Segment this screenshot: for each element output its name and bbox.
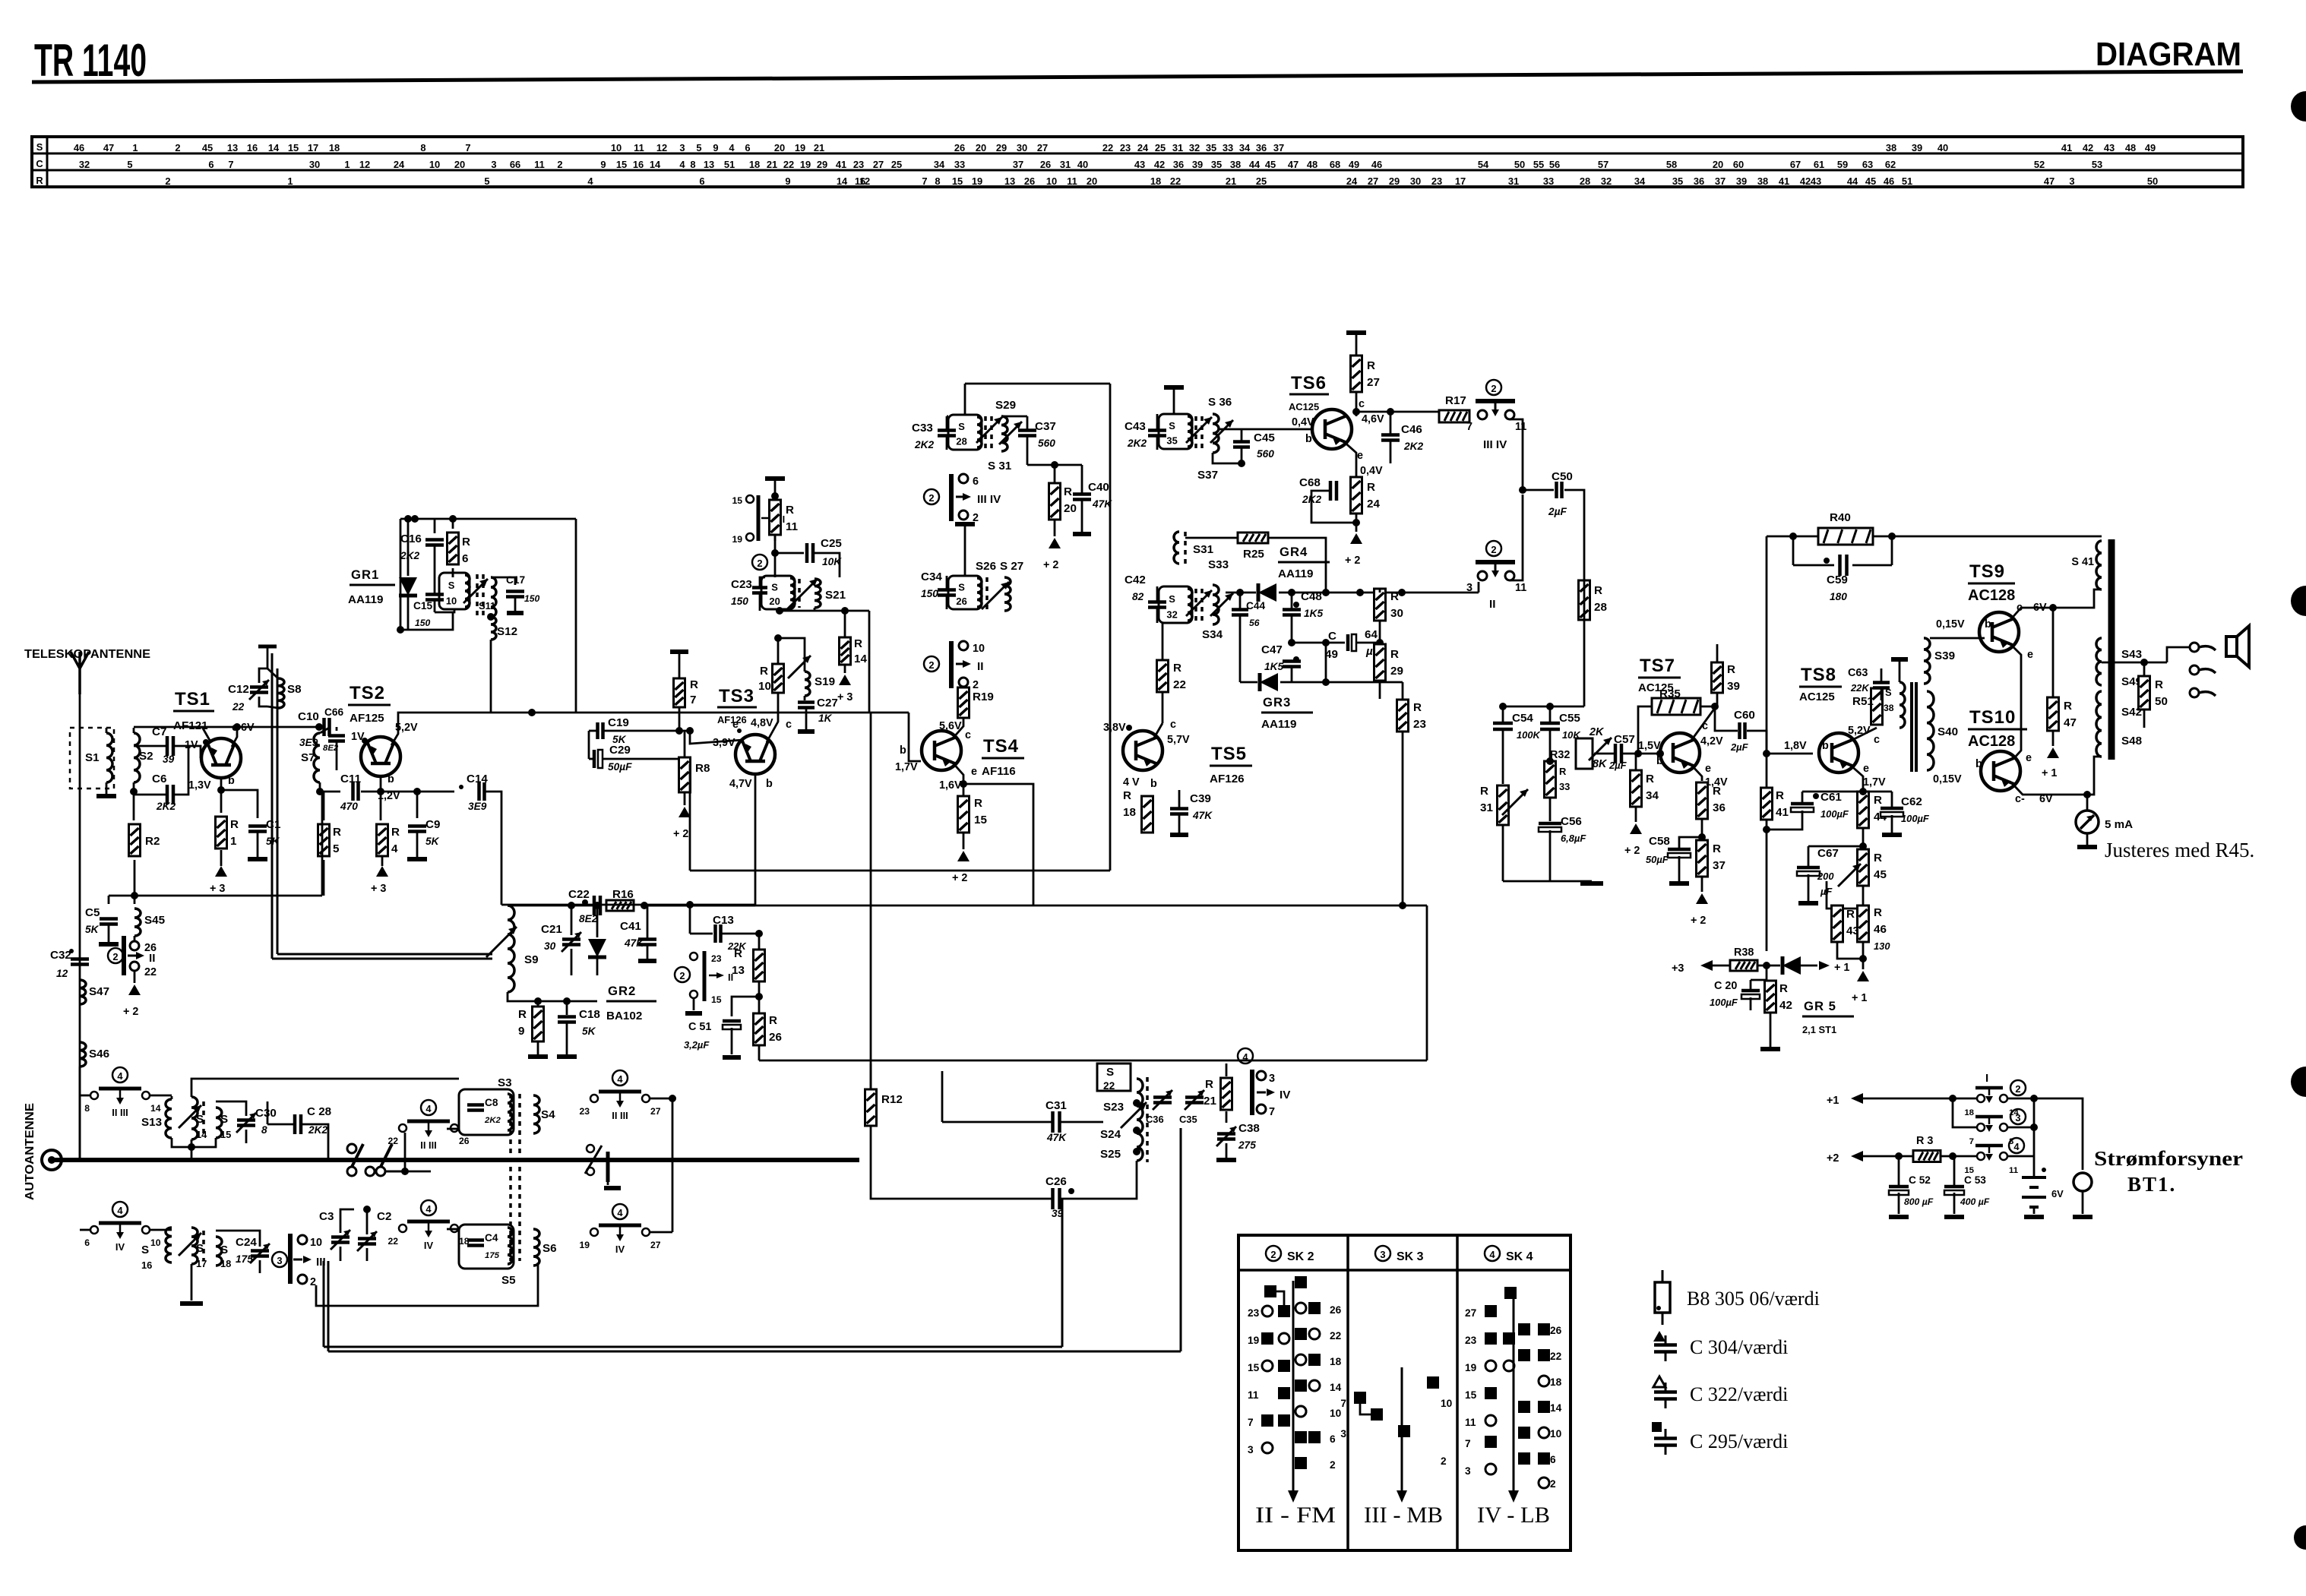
supply +2 below R24 [1350, 533, 1362, 544]
svg-text:43: 43 [1811, 175, 1821, 187]
svg-text:S 27: S 27 [1000, 560, 1023, 573]
svg-text:35: 35 [1211, 159, 1222, 170]
svg-text:AA119: AA119 [348, 593, 383, 606]
svg-text:2K2: 2K2 [400, 550, 419, 561]
svg-text:S6: S6 [542, 1242, 557, 1255]
resistor R28 [1579, 580, 1590, 620]
resistor R51 [1871, 688, 1883, 725]
svg-text:2: 2 [757, 558, 762, 569]
svg-text:22: 22 [1550, 1351, 1562, 1362]
svg-text:10: 10 [973, 643, 985, 655]
svg-text:22: 22 [232, 701, 245, 713]
svg-text:R: R [391, 826, 400, 839]
svg-text:7: 7 [1340, 1398, 1346, 1409]
svg-text:C 51: C 51 [688, 1021, 711, 1033]
svg-text:R: R [1727, 663, 1735, 676]
wire left bus down from R40 [1766, 536, 1768, 754]
SK2 arrow [1292, 1281, 1295, 1490]
transformer S17 S18 [191, 1228, 198, 1264]
potentiometer R45 [1858, 849, 1869, 886]
svg-text:e: e [2027, 649, 2033, 661]
svg-text:S: S [1169, 593, 1175, 605]
supply +1 below R46 [1857, 971, 1869, 981]
wire TS1 base-emitter bias [220, 779, 223, 813]
svg-text:42: 42 [1800, 175, 1811, 187]
wire TS3 emitter left [690, 731, 743, 744]
svg-text:C22: C22 [568, 888, 590, 901]
svg-text:S46: S46 [89, 1048, 109, 1060]
svg-text:C36: C36 [1146, 1114, 1164, 1125]
svg-text:R: R [854, 637, 862, 650]
svg-text:c: c [1170, 719, 1176, 731]
svg-text:AUTOANTENNE: AUTOANTENNE [24, 1103, 36, 1200]
svg-text:100K: 100K [1517, 729, 1542, 741]
svg-text:C38: C38 [1238, 1122, 1260, 1135]
svg-text:49: 49 [1349, 159, 1359, 170]
svg-text:b: b [387, 773, 394, 785]
svg-text:100µF: 100µF [1901, 813, 1930, 824]
wire TS4 emitter down [952, 762, 963, 796]
svg-text:2: 2 [679, 970, 685, 981]
svg-text:+ 1: + 1 [1852, 992, 1867, 1004]
svg-text:6: 6 [208, 159, 214, 170]
svg-text:C21: C21 [541, 923, 562, 936]
svg-text:S21: S21 [825, 589, 846, 602]
svg-text:b: b [766, 778, 773, 790]
switch 2: 7 III IV 11 [1486, 380, 1501, 395]
svg-text:22: 22 [1173, 678, 1186, 691]
wire TS4 base left [909, 713, 921, 761]
AVC wire left [109, 895, 322, 897]
svg-text:2K2: 2K2 [484, 1116, 501, 1125]
svg-text:30: 30 [1410, 175, 1421, 187]
svg-text:56: 56 [1549, 159, 1560, 170]
svg-text:AC128: AC128 [1968, 587, 2015, 604]
svg-text:R2: R2 [145, 835, 160, 848]
svg-text:34: 34 [934, 159, 945, 170]
svg-text:20: 20 [769, 596, 780, 607]
svg-text:4: 4 [425, 1103, 432, 1114]
svg-text:36: 36 [1713, 801, 1726, 814]
svg-text:C62: C62 [1901, 795, 1922, 808]
svg-text:+2: +2 [1827, 1152, 1839, 1165]
svg-text:R: R [1390, 590, 1399, 603]
svg-text:6: 6 [462, 552, 468, 565]
svg-text:45: 45 [1265, 159, 1276, 170]
wire GR1 top rail [400, 518, 576, 520]
svg-text:26: 26 [459, 1136, 470, 1146]
wire TS9 emitter [2010, 643, 2021, 759]
supply feed +1 arrow [1851, 1093, 1863, 1104]
wire vertical link switches [672, 1098, 674, 1232]
antenna bus thick [52, 1158, 859, 1162]
svg-text:R8: R8 [695, 762, 710, 775]
circled 2 marker [752, 555, 767, 570]
wire TS3 base down [754, 775, 757, 905]
svg-text:34: 34 [1646, 789, 1659, 802]
svg-text:TS10: TS10 [1969, 707, 2016, 728]
svg-text:2K2: 2K2 [156, 801, 176, 812]
svg-text:1K: 1K [818, 713, 833, 724]
svg-text:C 52: C 52 [1909, 1174, 1931, 1186]
coil S2 [134, 733, 140, 782]
svg-text:R17: R17 [1445, 394, 1466, 407]
svg-text:10: 10 [758, 680, 771, 693]
svg-text:C47: C47 [1261, 643, 1283, 656]
svg-text:C35: C35 [1179, 1114, 1197, 1125]
svg-text:21: 21 [1204, 1095, 1216, 1108]
svg-text:45: 45 [1865, 175, 1876, 187]
diode GR2 [588, 956, 606, 959]
svg-text:57: 57 [1598, 159, 1609, 170]
svg-text:R32: R32 [1550, 749, 1570, 761]
svg-text:R38: R38 [1734, 947, 1754, 959]
svg-text:26: 26 [1024, 175, 1035, 187]
wire TS1 emitter [202, 727, 211, 743]
svg-text:C66: C66 [324, 706, 343, 718]
svg-text:AF116: AF116 [982, 765, 1016, 778]
resistor R19 [958, 687, 970, 718]
IF transformer S10 [439, 573, 470, 609]
svg-text:BA102: BA102 [606, 1010, 642, 1022]
svg-text:3: 3 [1269, 1073, 1275, 1085]
svg-text:C24: C24 [236, 1236, 257, 1249]
svg-text:S1: S1 [85, 751, 100, 764]
svg-text:+ 2: + 2 [952, 872, 967, 884]
svg-text:36: 36 [1694, 175, 1704, 187]
svg-text:C16: C16 [400, 533, 422, 545]
svg-text:38: 38 [1757, 175, 1768, 187]
IF box S32 [1159, 586, 1192, 623]
svg-text:16: 16 [141, 1259, 152, 1271]
supply +3 below R4 [381, 856, 384, 866]
wire TS1 base [188, 746, 201, 758]
svg-text:1,3V: 1,3V [188, 779, 211, 792]
oscillator coil S20 box [761, 576, 795, 609]
svg-text:41: 41 [1776, 806, 1789, 819]
svg-text:82: 82 [1132, 591, 1144, 602]
ground AM block [191, 1264, 193, 1301]
svg-text:20: 20 [1087, 175, 1097, 187]
svg-text:S 31: S 31 [988, 460, 1012, 472]
svg-text:+ 2: + 2 [1345, 555, 1360, 567]
coil S6 [533, 1229, 539, 1266]
svg-text:33: 33 [1543, 175, 1554, 187]
band switch 4: 19 IV 27 [612, 1204, 628, 1219]
svg-text:9: 9 [600, 159, 606, 170]
svg-text:2µF: 2µF [1730, 741, 1749, 753]
wire S36 to TS6 base [1213, 453, 1242, 463]
svg-text:C45: C45 [1254, 431, 1275, 444]
svg-text:41: 41 [1779, 175, 1789, 187]
SK3 arrow [1401, 1367, 1403, 1490]
coil S47 [80, 980, 86, 1004]
resistor R5 [323, 792, 325, 820]
junction S11-S12 [487, 613, 495, 621]
svg-text:S: S [958, 581, 965, 593]
svg-text:26: 26 [954, 142, 965, 153]
svg-text:28: 28 [956, 436, 966, 447]
svg-text:19: 19 [1465, 1362, 1477, 1373]
svg-text:C34: C34 [921, 570, 942, 583]
svg-text:R: R [1713, 842, 1721, 855]
band switch 4: 22 IV 18 [421, 1200, 436, 1215]
svg-text:15: 15 [1465, 1389, 1477, 1401]
svg-text:21: 21 [1226, 175, 1236, 187]
svg-text:52: 52 [2034, 159, 2045, 170]
junction R44 bottom [1862, 828, 1865, 846]
capacitor C14 3E9 [417, 791, 454, 793]
svg-text:13: 13 [704, 159, 714, 170]
telescopic antenna symbol [71, 652, 89, 694]
svg-text:14: 14 [837, 175, 848, 187]
wire TS2 collector up [391, 713, 532, 745]
resistor R25 boxed [1238, 533, 1268, 543]
svg-text:C1: C1 [266, 818, 281, 831]
svg-text:29: 29 [1389, 175, 1400, 187]
svg-text:2: 2 [928, 659, 934, 671]
svg-text:1,8V: 1,8V [1784, 740, 1807, 752]
capacitor C51 3.2uF [732, 997, 759, 1016]
svg-text:C 20: C 20 [1714, 980, 1737, 992]
svg-text:40: 40 [1077, 159, 1088, 170]
svg-text:39: 39 [1192, 159, 1203, 170]
svg-text:3: 3 [277, 1255, 282, 1266]
svg-text:56: 56 [1249, 618, 1260, 628]
svg-text:R: R [1123, 789, 1131, 802]
svg-text:C15: C15 [413, 600, 432, 612]
svg-text:e: e [971, 766, 977, 778]
svg-text:C6: C6 [152, 773, 166, 785]
svg-text:37: 37 [1013, 159, 1023, 170]
svg-text:100µF: 100µF [1820, 808, 1849, 820]
svg-text:C56: C56 [1561, 815, 1582, 828]
svg-text:R: R [1390, 648, 1399, 661]
svg-text:b: b [1975, 758, 1982, 770]
gang bus double line [277, 953, 492, 956]
svg-text:2,1 ST1: 2,1 ST1 [1802, 1024, 1836, 1035]
svg-text:5,2V: 5,2V [1848, 725, 1871, 737]
svg-text:31: 31 [1508, 175, 1519, 187]
transformer S14 S15 [191, 1097, 198, 1139]
svg-text:R: R [1594, 584, 1602, 597]
svg-text:IV - LB: IV - LB [1477, 1503, 1550, 1528]
svg-text:2K2: 2K2 [914, 439, 934, 450]
svg-text:47: 47 [2044, 175, 2055, 187]
svg-text:26: 26 [1330, 1304, 1342, 1316]
svg-text:19: 19 [732, 534, 742, 545]
title rule [32, 71, 2243, 82]
svg-text:11: 11 [634, 142, 644, 153]
svg-text:47: 47 [1288, 159, 1299, 170]
svg-text:C19: C19 [608, 716, 629, 729]
svg-text:51: 51 [1902, 175, 1912, 187]
band switch 4: 8 II III 14 [112, 1067, 128, 1082]
svg-text:12: 12 [359, 159, 370, 170]
svg-text:10: 10 [446, 595, 457, 606]
svg-text:35: 35 [1206, 142, 1216, 153]
variable capacitor C35 [1185, 1098, 1204, 1103]
svg-text:8K: 8K [1593, 758, 1608, 770]
svg-text:C59: C59 [1827, 574, 1848, 586]
svg-text:43: 43 [1134, 159, 1145, 170]
svg-text:35: 35 [1672, 175, 1683, 187]
gang drive double line [323, 1261, 325, 1347]
svg-text:S 36: S 36 [1208, 396, 1232, 409]
ground above R11 [765, 476, 785, 481]
svg-text:S: S [220, 1113, 228, 1126]
svg-text:C33: C33 [912, 422, 933, 435]
switch table frame [1238, 1235, 1571, 1550]
svg-text:25: 25 [891, 159, 902, 170]
svg-text:10: 10 [1441, 1398, 1453, 1409]
capacitor C55 10K [1540, 723, 1560, 729]
svg-text:22: 22 [783, 159, 794, 170]
svg-text:e: e [1705, 763, 1711, 775]
bus vertical x1461 [1109, 384, 1112, 871]
core S26-S27 [985, 577, 989, 609]
svg-text:11: 11 [1515, 582, 1526, 594]
svg-text:3: 3 [2069, 175, 2074, 187]
svg-text:800 µF: 800 µF [1904, 1196, 1934, 1207]
svg-text:5: 5 [333, 842, 340, 855]
svg-text:18: 18 [1550, 1376, 1562, 1388]
potentiometer R31 [1498, 785, 1509, 825]
svg-text:TR 1140: TR 1140 [34, 35, 147, 86]
svg-text:2µF: 2µF [1609, 760, 1627, 771]
svg-text:19: 19 [1248, 1335, 1260, 1346]
svg-text:S: S [958, 421, 965, 432]
wire TS10 collector [2011, 757, 2102, 795]
svg-text:C31: C31 [1045, 1099, 1067, 1112]
svg-text:20: 20 [454, 159, 465, 170]
svg-text:TS8: TS8 [1801, 665, 1836, 685]
svg-text:e: e [2026, 752, 2032, 764]
svg-text:S2: S2 [139, 750, 153, 763]
capacitor C54 100K [1493, 723, 1513, 729]
coil S38 [1900, 682, 1905, 728]
svg-text:2: 2 [165, 175, 170, 187]
svg-text:IV: IV [424, 1240, 434, 1251]
capacitor C59 180 [1792, 536, 1795, 565]
svg-text:25: 25 [1155, 142, 1166, 153]
svg-text:AA119: AA119 [1261, 718, 1296, 731]
svg-text:0,4V: 0,4V [1360, 465, 1383, 477]
svg-text:c: c [786, 719, 792, 731]
svg-text:2: 2 [1441, 1455, 1447, 1467]
svg-text:+ 2: + 2 [1043, 559, 1058, 571]
svg-text:S: S [771, 581, 778, 593]
svg-text:BT1.: BT1. [2127, 1173, 2176, 1196]
svg-text:AC128: AC128 [1968, 733, 2015, 750]
svg-text:C42: C42 [1125, 574, 1146, 586]
coil S12 [491, 617, 496, 640]
svg-text:3: 3 [1340, 1428, 1346, 1440]
svg-text:2: 2 [973, 679, 979, 691]
capacitor C11 470 [320, 791, 340, 793]
svg-text:7: 7 [1465, 1438, 1471, 1449]
svg-text:3,2µF: 3,2µF [684, 1039, 710, 1051]
power switch row III [1975, 1144, 2003, 1148]
svg-text:32: 32 [1601, 175, 1612, 187]
coil S19 with arrow [778, 638, 805, 672]
svg-text:20: 20 [774, 142, 785, 153]
svg-text:S40: S40 [1937, 725, 1958, 738]
svg-text:8: 8 [261, 1124, 267, 1136]
svg-text:14: 14 [1550, 1402, 1562, 1414]
trimmer C38 275 [1217, 1134, 1235, 1139]
svg-text:R: R [36, 175, 43, 186]
svg-text:TS5: TS5 [1211, 744, 1247, 764]
svg-text:2K2: 2K2 [1403, 441, 1423, 452]
capacitor C1 5K [221, 790, 258, 818]
svg-text:175: 175 [236, 1253, 253, 1265]
svg-text:R: R [1646, 773, 1654, 785]
coil S4 [533, 1095, 539, 1133]
wire S9 top to C22 [508, 905, 597, 907]
svg-text:30: 30 [544, 940, 556, 952]
wire antenna down [79, 694, 81, 1159]
svg-text:AC125: AC125 [1799, 691, 1835, 703]
svg-text:34: 34 [1634, 175, 1646, 187]
component location table frame [32, 137, 2243, 187]
switch II 15/19 [757, 495, 761, 541]
svg-text:R: R [734, 947, 742, 960]
svg-text:50µF: 50µF [1646, 854, 1669, 865]
svg-text:22: 22 [1103, 1080, 1115, 1092]
resistor R27 [1351, 356, 1362, 392]
svg-text:S33: S33 [1208, 558, 1229, 571]
svg-text:R: R [1713, 785, 1721, 798]
svg-text:2: 2 [2015, 1083, 2020, 1095]
svg-text:47K: 47K [1046, 1132, 1067, 1143]
svg-text:6: 6 [745, 142, 750, 153]
svg-text:41: 41 [836, 159, 846, 170]
svg-text:22K: 22K [1850, 682, 1870, 694]
resistor R12 [865, 1089, 877, 1126]
resistor R50 [2139, 676, 2150, 710]
svg-text:R: R [1173, 662, 1181, 675]
svg-text:10: 10 [310, 1237, 322, 1249]
svg-text:40: 40 [1937, 142, 1948, 153]
svg-text:400 µF: 400 µF [1960, 1196, 1990, 1207]
transformer core S20-S21 [798, 579, 801, 608]
svg-text:23: 23 [711, 953, 722, 964]
svg-text:S 41: S 41 [2071, 556, 2094, 568]
top rail FM [134, 726, 267, 728]
svg-text:7: 7 [690, 694, 696, 706]
svg-text:GR4: GR4 [1280, 545, 1308, 559]
variable capacitor C36 [1153, 1098, 1172, 1103]
svg-text:C27: C27 [817, 697, 838, 710]
svg-text:3: 3 [2015, 1112, 2020, 1124]
wire TS3 collector up to R10 [767, 692, 778, 742]
svg-text:c: c [965, 729, 971, 741]
svg-text:C29: C29 [609, 744, 631, 757]
core S3-S4 [509, 1094, 512, 1261]
svg-text:+ 2: + 2 [673, 828, 688, 840]
svg-text:R16: R16 [612, 888, 634, 901]
svg-text:4: 4 [117, 1070, 123, 1082]
legend capacitor C295 [1652, 1422, 1662, 1432]
svg-text:2: 2 [557, 159, 562, 170]
svg-text:8: 8 [84, 1103, 90, 1114]
svg-text:35: 35 [1166, 435, 1177, 447]
svg-text:+1: +1 [1827, 1095, 1839, 1107]
svg-text:AF125: AF125 [350, 712, 384, 725]
svg-text:0,4V: 0,4V [1292, 416, 1314, 428]
wire S6 return to switch III [316, 1263, 538, 1306]
